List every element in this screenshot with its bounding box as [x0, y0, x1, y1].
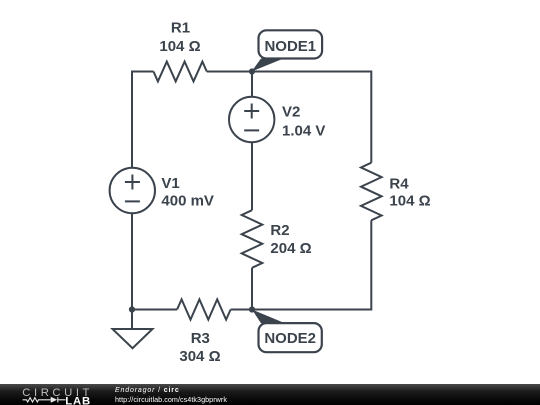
wire node1 to top-right corner and down to R4: [252, 72, 371, 163]
resistor R1: [154, 62, 207, 82]
voltage source V2: [229, 97, 274, 142]
node junction dot bottom-left: [129, 306, 135, 312]
V1 bottom lead: [131, 213, 133, 309]
wire R2 to node2: [251, 268, 253, 310]
wire top-left corner to R1: [132, 72, 154, 168]
svg-text:V1: V1: [161, 175, 179, 192]
resistor R3: [177, 299, 231, 319]
voltage source V1 top lead: [131, 72, 133, 169]
V1 plus sign: [125, 175, 140, 190]
svg-text:104 Ω: 104 Ω: [159, 38, 200, 55]
NODE1 label pointer: [252, 59, 284, 72]
svg-text:R3: R3: [191, 330, 210, 347]
V2 plus sign: [244, 104, 259, 119]
ground stem: [131, 310, 133, 330]
node NODE2 junction dot: [249, 306, 255, 312]
wire R1 to node1: [207, 71, 252, 73]
svg-text:304 Ω: 304 Ω: [179, 348, 220, 365]
wire node1 to V2: [251, 72, 253, 97]
resistor R4: [361, 163, 382, 221]
svg-text:V2: V2: [282, 103, 300, 120]
svg-text:204 Ω: 204 Ω: [270, 240, 311, 257]
NODE1 label box: [259, 30, 323, 58]
svg-text:104 Ω: 104 Ω: [389, 193, 430, 210]
svg-text:NODE1: NODE1: [264, 38, 316, 55]
svg-text:R2: R2: [270, 222, 289, 239]
V1 minus sign: [125, 200, 140, 202]
svg-text:LAB: LAB: [65, 395, 91, 405]
svg-text:NODE2: NODE2: [264, 330, 316, 347]
wire R3 to left node: [132, 309, 177, 311]
node NODE1 junction dot: [249, 68, 255, 74]
NODE2 label pointer: [252, 310, 285, 324]
svg-text:R1: R1: [171, 19, 190, 36]
CircuitLab logo: [22, 384, 117, 405]
V2 bottom lead to R2: [251, 142, 253, 210]
ground symbol: [113, 329, 153, 348]
wire node2 to R3: [231, 309, 252, 311]
NODE2 label box: [259, 323, 322, 352]
wire R4 to bottom-right corner to node2: [252, 220, 371, 309]
svg-text:R4: R4: [389, 176, 409, 193]
V2 minus sign: [244, 129, 259, 131]
svg-text:1.04 V: 1.04 V: [282, 123, 325, 140]
resistor R2: [242, 210, 263, 268]
voltage source V1: [110, 168, 155, 213]
svg-text:400 mV: 400 mV: [161, 192, 214, 209]
